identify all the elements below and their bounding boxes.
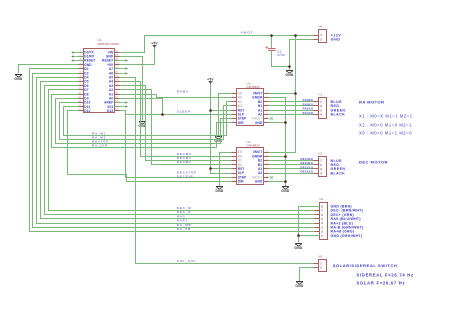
wire D13 DECSTEP	[120, 111, 232, 178]
svg-text:GND: GND	[255, 180, 263, 184]
svg-text:DIR: DIR	[238, 121, 244, 125]
wire D12 DECDIR	[68, 111, 232, 182]
net label RA(A1)	[303, 107, 314, 111]
svg-text:GND: GND	[14, 77, 23, 81]
net label RASTEP	[92, 140, 109, 144]
svg-text:+5V: +5V	[207, 77, 214, 81]
svg-text:VMOT: VMOT	[241, 31, 253, 35]
junction J10	[209, 167, 212, 170]
net label RA_M2	[92, 136, 106, 140]
label VMOT	[241, 31, 253, 35]
connector H0 mount cable	[315, 197, 328, 239]
wire D9 RASTEP	[56, 99, 232, 144]
svg-text:ARDUINO NANO: ARDUINO NANO	[98, 42, 120, 46]
net label RAP2	[177, 219, 188, 223]
wire U3 output to H2 pin4	[269, 173, 314, 175]
wire U2 EN to ground	[219, 94, 232, 136]
ground symbol H0	[294, 244, 303, 251]
ground symbol below C1	[285, 71, 294, 78]
ground symbol U2 EN	[214, 137, 223, 144]
junction J6	[284, 155, 287, 158]
svg-text:DECM2: DECM2	[177, 160, 192, 164]
wire D8 RA_DIR	[52, 95, 232, 148]
net label RA_DIR	[92, 144, 108, 148]
svg-text:BLACK: BLACK	[331, 171, 346, 175]
junction J4	[294, 92, 297, 95]
note DEC MOTOR	[359, 160, 388, 165]
wire U3 output to H2 pin2	[269, 164, 314, 166]
note SOLAR/SIDEREAL SWITCH	[333, 263, 398, 268]
net label DEC_M	[177, 206, 192, 210]
wire D2 to H0	[30, 69, 315, 232]
net label DEC(B2)	[301, 157, 314, 161]
label H2 GREEN	[331, 167, 346, 171]
net label RA(B1)	[303, 102, 314, 106]
no-connect X U3 FAULT	[270, 176, 273, 179]
ground symbol H5	[295, 282, 304, 289]
wire U2 output to H1 pin3	[269, 110, 314, 112]
net label SOL_SID	[177, 259, 196, 263]
svg-text:X8 : M0=0 M1=1 M2=0: X8 : M0=0 M1=1 M2=0	[359, 130, 412, 135]
net label RA(B2)	[303, 98, 314, 102]
wire D10 RA_M2	[60, 103, 232, 140]
net label DECDIR	[177, 175, 194, 179]
wire D5 to H0	[41, 82, 315, 219]
svg-text:DRV8825: DRV8825	[247, 85, 261, 89]
net label RA(A2)	[303, 111, 314, 115]
wire A3 DECM1	[120, 86, 232, 161]
wire A2 DECM2	[120, 90, 232, 165]
svg-text:X1 : M0=X M1=1 M2=1: X1 : M0=X M1=1 M2=1	[359, 114, 413, 119]
label H1 RED	[331, 104, 340, 108]
no-connect arrow U1 RESET left	[71, 59, 83, 61]
wire ground rail right	[269, 98, 286, 187]
net label RA_PB	[177, 227, 191, 231]
net label RA_MB	[177, 223, 192, 227]
svg-text:DRV8825: DRV8825	[247, 144, 261, 148]
svg-text:RA(B1): RA(B1)	[303, 102, 314, 106]
wire U2 output to H1 pin4	[269, 114, 314, 116]
junction J9	[161, 113, 164, 116]
svg-text:SIDEREAL F=26.74 Hz: SIDEREAL F=26.74 Hz	[357, 273, 414, 278]
svg-text:GND: GND	[215, 189, 224, 193]
svg-text:SOLAR/SIDEREAL SWITCH: SOLAR/SIDEREAL SWITCH	[333, 263, 398, 268]
label GND H4	[331, 38, 341, 42]
wire U2 VMOT tap	[269, 93, 296, 95]
svg-text:H1: H1	[319, 93, 323, 97]
label H0 RA0 (BLU/WHT)	[331, 217, 361, 221]
label H0 RA+B (ORG)	[331, 230, 355, 234]
wire A1 RAM0	[120, 95, 232, 98]
svg-text:H2: H2	[319, 152, 323, 156]
op-amp U1 ARDUINO NANO	[78, 38, 120, 113]
driver IC U3 DRV8825	[232, 140, 270, 184]
ground symbol right rail	[281, 187, 290, 194]
ground symbol left of U1	[14, 75, 23, 82]
junction J11	[297, 234, 300, 237]
wire A4 DECM0	[120, 82, 232, 157]
svg-text:RA(B2): RA(B2)	[303, 98, 314, 102]
wire D6 to H0	[45, 86, 315, 215]
svg-text:H5: H5	[319, 254, 323, 258]
svg-text:DIR: DIR	[238, 180, 244, 184]
wire U2 GND tap	[269, 122, 286, 124]
wire D7 to H0	[49, 90, 315, 211]
wire SLEEP branch	[126, 114, 232, 116]
label H2 BLACK	[331, 171, 346, 175]
wire +12V rail to H4 pin1	[145, 35, 314, 37]
wire U2 RST tie	[211, 110, 232, 112]
no-connect arrow U1 AREF	[115, 101, 128, 103]
junction J8	[209, 109, 212, 112]
ground symbol U3 EN	[215, 187, 224, 194]
svg-text:SLEEP: SLEEP	[177, 110, 191, 114]
wire U3 output to H2 pin1	[269, 160, 314, 162]
wire A5 SOL_SID	[120, 78, 314, 264]
wire U3 output to H2 pin3	[269, 168, 314, 170]
svg-text:RA MOTOR: RA MOTOR	[359, 99, 385, 104]
svg-text:D13: D13	[107, 109, 113, 113]
wire U2 output to H1 pin1	[269, 101, 314, 103]
net label RA_M1	[92, 132, 106, 136]
net label RAM0	[177, 90, 189, 94]
net label SLEEP	[177, 110, 191, 114]
note X8	[359, 130, 412, 135]
svg-text:H4: H4	[319, 25, 323, 29]
driver IC U2 DRV8825	[232, 81, 270, 125]
wire D3 to H0	[33, 74, 315, 228]
capacitor C1 47uF	[266, 36, 290, 67]
note RA MOTOR	[359, 99, 385, 104]
label H0 RA+2 (BLU)	[331, 221, 354, 225]
svg-text:+5V: +5V	[151, 41, 158, 45]
net label DEC(A1)	[301, 165, 314, 169]
label +12V	[331, 34, 342, 38]
label H0 RA-B (GRN/WHT)	[331, 226, 364, 230]
svg-text:DEC(B1): DEC(B1)	[301, 161, 314, 165]
wire +5V tie vertical	[211, 85, 232, 174]
net label DECM2	[177, 160, 192, 164]
no-connect arrow U1 RESET right	[115, 59, 128, 61]
svg-text:GND: GND	[294, 246, 303, 250]
label H2 RED	[331, 163, 340, 167]
wire H4 pin2 to GND	[290, 40, 314, 71]
svg-text:GND: GND	[295, 284, 304, 288]
svg-text:RA(A1): RA(A1)	[303, 107, 314, 111]
junction J3	[288, 65, 291, 68]
net label DECSTEP	[177, 170, 197, 174]
note X2	[359, 122, 412, 127]
no-connect X U2 FAULT	[270, 117, 273, 120]
svg-text:DEC(A1): DEC(A1)	[301, 165, 314, 169]
connector H5 switch	[314, 254, 327, 271]
svg-text:D12: D12	[84, 109, 90, 113]
connector H2 DEC motor	[314, 152, 327, 177]
no-connect arrow U1 3V3	[115, 105, 128, 107]
svg-text:SOL_SID: SOL_SID	[177, 259, 196, 263]
svg-text:GND: GND	[285, 73, 294, 77]
svg-text:X2 : M0=0 M1=0 M2=1: X2 : M0=0 M1=0 M2=1	[359, 122, 412, 127]
wire U2 output to H1 pin2	[269, 105, 314, 107]
svg-text:GND: GND	[281, 189, 290, 193]
label H0 DEC- (BRN/WHT)	[331, 209, 364, 213]
svg-text:RAM0: RAM0	[177, 90, 189, 94]
svg-text:10: 10	[266, 176, 269, 178]
wire H5 pin2 ground	[300, 268, 314, 282]
svg-text:47uF: 47uF	[277, 53, 285, 57]
svg-text:GND: GND	[331, 38, 341, 42]
svg-text:10: 10	[266, 117, 269, 119]
svg-text:DECDIR: DECDIR	[177, 175, 194, 179]
wire D11 RA_M1	[64, 102, 232, 136]
label H0 GND (ORG/WHT)	[331, 234, 363, 238]
wire U3 GNDM tap	[269, 156, 286, 158]
wire D4 to H0	[37, 78, 315, 224]
no-connect arrow U1 A7	[115, 67, 128, 69]
wire H0 pin8 ground	[299, 207, 320, 243]
label H1 BLACK	[331, 113, 346, 117]
connector H1 RA motor	[314, 93, 327, 119]
note SIDEREAL F	[357, 273, 414, 278]
label H1 GREEN	[331, 108, 346, 112]
net label DEC_P	[177, 210, 191, 214]
svg-text:DEC(A2): DEC(A2)	[301, 170, 314, 174]
no-connect arrow U1 D0/TX	[71, 51, 83, 53]
note SOLAR F	[357, 281, 406, 286]
ground symbol below U1 right	[138, 122, 147, 129]
wire H0 pin1 ground	[299, 235, 320, 237]
label H0 DEC+ (GRN)	[331, 213, 355, 217]
wire U3 GND tap	[269, 181, 286, 183]
+5V symbol near U1	[151, 41, 158, 48]
wire U3 EN to ground	[220, 153, 232, 187]
svg-text:GND (ORG/WHT): GND (ORG/WHT)	[331, 234, 363, 238]
label H0 GND (BRN)	[331, 205, 352, 209]
+5V symbol above tie	[207, 77, 214, 84]
svg-text:GND: GND	[255, 121, 263, 125]
junction J1	[270, 34, 273, 37]
connector H4 power in	[314, 25, 327, 43]
svg-text:BLACK: BLACK	[331, 113, 346, 117]
wire VIN riser	[120, 36, 145, 53]
svg-text:RA_DIR: RA_DIR	[92, 144, 108, 148]
net label DECM1	[177, 156, 192, 160]
svg-text:H0: H0	[320, 197, 324, 201]
net label RA0	[177, 214, 185, 218]
wire U1 GND right	[120, 57, 143, 121]
svg-text:DEC MOTOR: DEC MOTOR	[359, 160, 388, 165]
wire U3 RST tie	[211, 168, 232, 170]
svg-text:DEC(B2): DEC(B2)	[301, 157, 314, 161]
wire +12V vertical to U3 VMOT	[269, 36, 296, 153]
note X1	[359, 114, 413, 119]
wire U1 GND left	[19, 65, 79, 74]
net label DECM0	[177, 152, 192, 156]
net label DEC(B1)	[301, 161, 314, 165]
no-connect arrow U1 A6	[115, 72, 128, 74]
net label DEC(A2)	[301, 170, 314, 174]
svg-text:RA(A2): RA(A2)	[303, 111, 314, 115]
label H2 BLUE	[331, 159, 343, 163]
junction J2	[294, 34, 297, 37]
wire +5V pin	[120, 49, 155, 65]
label H1 BLUE	[331, 100, 343, 104]
no-connect arrow U1 D1/RX	[71, 55, 83, 57]
svg-text:SOLAR F=26.67 Hz: SOLAR F=26.67 Hz	[357, 281, 406, 286]
junction J5	[284, 121, 287, 124]
junction J7	[284, 180, 287, 183]
wire A0 to SLEEP junction	[120, 99, 163, 115]
svg-text:RA_PB: RA_PB	[177, 227, 191, 231]
